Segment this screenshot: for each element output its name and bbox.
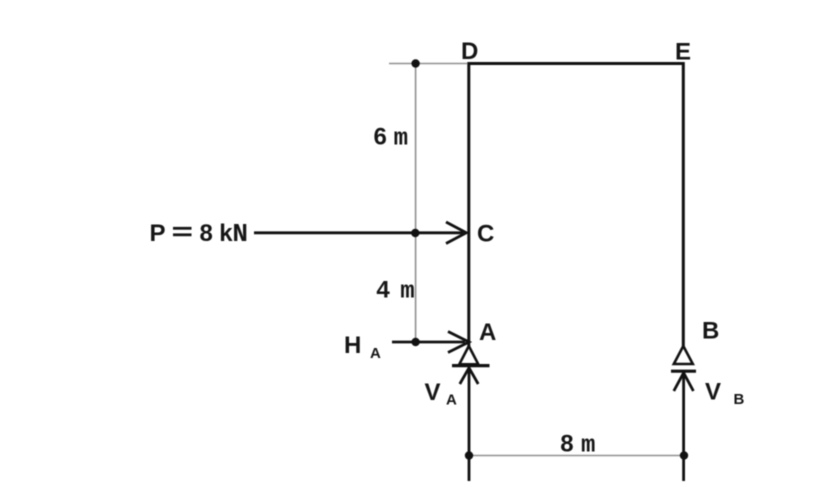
svg-text:H: H: [344, 332, 361, 359]
svg-text:m: m: [581, 433, 595, 460]
svg-text:N: N: [232, 219, 248, 249]
svg-text:8: 8: [200, 220, 213, 247]
svg-text:E: E: [675, 39, 691, 66]
svg-text:m: m: [394, 125, 408, 152]
svg-text:6: 6: [374, 123, 387, 150]
svg-text:P: P: [150, 220, 166, 247]
svg-text:V: V: [425, 379, 441, 406]
svg-text:A: A: [370, 345, 381, 362]
svg-text:m: m: [400, 279, 414, 306]
svg-text:D: D: [461, 38, 478, 65]
svg-text:A: A: [479, 319, 496, 346]
svg-text:k: k: [219, 220, 233, 247]
svg-text:V: V: [705, 379, 721, 406]
svg-text:A: A: [446, 392, 457, 409]
svg-text:C: C: [477, 221, 494, 248]
svg-text:B: B: [702, 318, 719, 345]
svg-text:B: B: [734, 391, 745, 408]
svg-text:8: 8: [560, 431, 573, 458]
svg-text:4: 4: [376, 277, 390, 304]
